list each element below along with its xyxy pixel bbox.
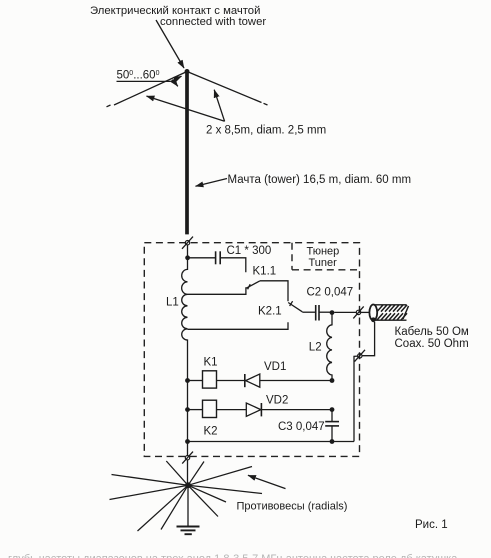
svg-text:C3 0,047: C3 0,047 [278, 421, 325, 433]
svg-text:K2.1: K2.1 [258, 306, 282, 318]
svg-text:глубь частоты диапазонов на тр: глубь частоты диапазонов на трех анод 1,… [8, 553, 458, 558]
svg-text:Противовесы (radials): Противовесы (radials) [237, 500, 348, 512]
svg-text:500...600: 500...600 [117, 70, 160, 82]
svg-text:Рис. 1: Рис. 1 [415, 519, 448, 531]
svg-text:VD2: VD2 [266, 395, 288, 407]
svg-text:L2: L2 [309, 342, 322, 354]
svg-text:K1.1: K1.1 [253, 265, 277, 277]
svg-text:2 x 8,5m, diam. 2,5 mm: 2 x 8,5m, diam. 2,5 mm [206, 125, 326, 137]
svg-text:VD1: VD1 [264, 361, 286, 373]
svg-text:Тюнер: Тюнер [307, 246, 340, 258]
svg-text:C1 * 300: C1 * 300 [227, 245, 272, 257]
svg-text:connected with tower: connected with tower [160, 16, 266, 28]
svg-text:K2: K2 [204, 426, 218, 438]
svg-text:Tuner: Tuner [309, 257, 338, 269]
svg-text:C2 0,047: C2 0,047 [307, 286, 354, 298]
svg-text:Электрический контакт с мачтой: Электрический контакт с мачтой [90, 5, 260, 17]
svg-text:K1: K1 [204, 356, 218, 368]
svg-text:L1: L1 [166, 296, 179, 308]
svg-text:Кабель 50 Ом: Кабель 50 Ом [395, 326, 469, 338]
svg-text:Мачта (tower) 16,5 m, diam. 60: Мачта (tower) 16,5 m, diam. 60 mm [228, 174, 412, 186]
svg-text:Соах. 50 Ohm: Соах. 50 Ohm [395, 338, 469, 350]
